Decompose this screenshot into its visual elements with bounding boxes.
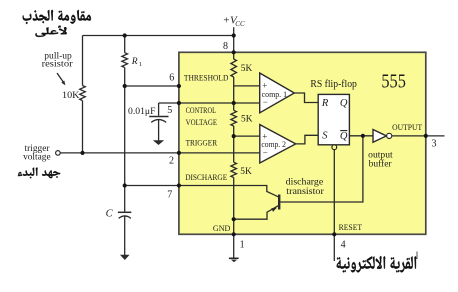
svg-text:S: S [322, 130, 328, 141]
555 IC body box [179, 52, 426, 234]
svg-text:transistor: transistor [286, 187, 324, 197]
svg-text:Q: Q [340, 98, 348, 109]
wire comparator1 plus input tap [234, 85, 260, 87]
wire left vertical (pull-up branch) [82, 36, 84, 153]
svg-text:voltage: voltage [23, 152, 50, 162]
svg-text:buffer: buffer [369, 159, 393, 170]
svg-text:R: R [131, 57, 138, 67]
junction emitter / divider bottom [232, 217, 236, 221]
svg-text:CONTROL: CONTROL [186, 105, 217, 115]
junction pin 3 at box edge [424, 134, 428, 138]
svg-text:C: C [106, 208, 114, 219]
wire Qbar to transistor base [280, 136, 363, 202]
wire comparator1 output to R [294, 93, 318, 103]
op-amp comparator 1 [260, 73, 295, 113]
svg-text:2: 2 [169, 155, 174, 166]
transistor emitter [234, 206, 279, 220]
svg-text:8: 8 [223, 41, 228, 52]
svg-text:5K: 5K [240, 167, 252, 177]
wire Vcc stub to pin 8 [233, 27, 235, 52]
wire R1 branch vertical [124, 36, 126, 87]
wire top rail Vcc [83, 35, 234, 37]
op-amp comparator 2 [260, 125, 296, 163]
capacitor 0.01uF plates [149, 116, 168, 118]
junction trigger / 10K branch [80, 151, 84, 155]
ground for C [124, 216, 126, 255]
svg-text:1: 1 [240, 239, 245, 250]
junction threshold / R1 [123, 84, 127, 88]
resistor 10K pull-up [80, 86, 86, 101]
svg-text:CC: CC [235, 20, 245, 28]
capacitor C plates [118, 211, 131, 213]
junction Qbar / base [361, 134, 365, 138]
junction R1 top rail [123, 33, 127, 37]
svg-text:discharge: discharge [286, 177, 324, 187]
junction pin 6 at box edge [177, 84, 181, 88]
junction pin 7 at box edge [177, 183, 181, 187]
Q-bar overline [340, 130, 347, 132]
wire output to pin 3 [392, 135, 445, 137]
wire vertical R1-to-C (threshold/discharge column) [124, 86, 126, 212]
junction pin 1 at box bottom [232, 232, 236, 236]
svg-text:RESET: RESET [339, 222, 363, 232]
junction pin 2 at box edge [177, 151, 181, 155]
svg-text:GND: GND [213, 223, 231, 233]
resistor chain verticals [233, 52, 235, 234]
text cursor mark [416, 252, 418, 260]
svg-text:resistor: resistor [42, 60, 74, 70]
wire pin 6 threshold stub [125, 85, 179, 87]
output buffer inverter [373, 130, 386, 143]
svg-text:4: 4 [341, 240, 346, 251]
svg-text:3: 3 [432, 139, 437, 150]
wire comparator2 plus input tap [234, 135, 260, 137]
svg-text:6: 6 [169, 73, 174, 84]
svg-text:OUTPUT: OUTPUT [392, 122, 423, 132]
capacitor 0.01uF stub [158, 103, 160, 116]
arabic label: upward (li-a'la) [36, 26, 67, 37]
arabic label: pull-up resistance (muqawamat al-jathb) [23, 10, 91, 24]
wire pin 7 discharge / collector [125, 186, 279, 197]
junction pin 8 at box [232, 50, 236, 54]
RS flip-flop box U1 [318, 94, 349, 144]
svg-text:5K: 5K [241, 115, 253, 125]
arrow pull-up pointer [57, 73, 63, 82]
resistor R1 [122, 53, 128, 68]
transistor emitter arrow [271, 208, 277, 212]
svg-text:TRIGGER: TRIGGER [186, 138, 218, 148]
wire pin 1 ground stub [233, 234, 235, 258]
wire pin 2 trigger (to comparator 2 minus) [60, 152, 259, 154]
junction pin 5 at box edge [177, 101, 181, 105]
junction discharge / R1 column [123, 183, 127, 187]
svg-text:7: 7 [167, 190, 172, 201]
trigger voltage terminal circle [56, 151, 61, 156]
svg-text:5K: 5K [241, 64, 253, 74]
wire Qbar output to buffer [349, 135, 373, 137]
junction pin 4 at box bottom [332, 232, 336, 236]
svg-text:RS flip-flop: RS flip-flop [310, 79, 357, 90]
junction Vcc rail [232, 33, 236, 37]
flip-flop reset bubble [332, 145, 337, 150]
resistor 5K lower [231, 162, 237, 177]
ground pin 1 [229, 257, 239, 259]
wire pin 5 control voltage (to comparator 1 minus) [159, 102, 260, 104]
junction control / divider [232, 101, 236, 105]
svg-text:THRESHOLD: THRESHOLD [184, 73, 229, 83]
resistor 5K middle [231, 110, 237, 126]
arabic label: the electronic village (al-qarya al-electroniya) [337, 256, 417, 273]
svg-text:VOLTAGE: VOLTAGE [186, 117, 218, 127]
svg-text:Q: Q [340, 131, 348, 142]
svg-text:DISCHARGE: DISCHARGE [185, 172, 227, 182]
svg-text:10K: 10K [62, 91, 80, 101]
svg-text:comp. 2: comp. 2 [261, 139, 286, 149]
svg-text:0.01μF: 0.01μF [128, 107, 156, 117]
svg-text:R: R [321, 98, 329, 109]
svg-text:555: 555 [381, 71, 406, 93]
arabic label: start voltage (jahd al-bad') [18, 167, 61, 178]
wire reset line to pin 4 [333, 150, 335, 261]
junction divider / comp2 plus [232, 134, 236, 138]
transistor Q1 discharge: base bar [278, 195, 280, 210]
svg-text:1: 1 [139, 61, 142, 68]
wire comparator2 output to S [296, 135, 319, 144]
svg-text:comp. 1: comp. 1 [262, 89, 288, 99]
ground for 0.01uF [158, 120, 160, 141]
svg-text:5: 5 [167, 105, 172, 116]
resistor 5K upper [231, 59, 237, 77]
